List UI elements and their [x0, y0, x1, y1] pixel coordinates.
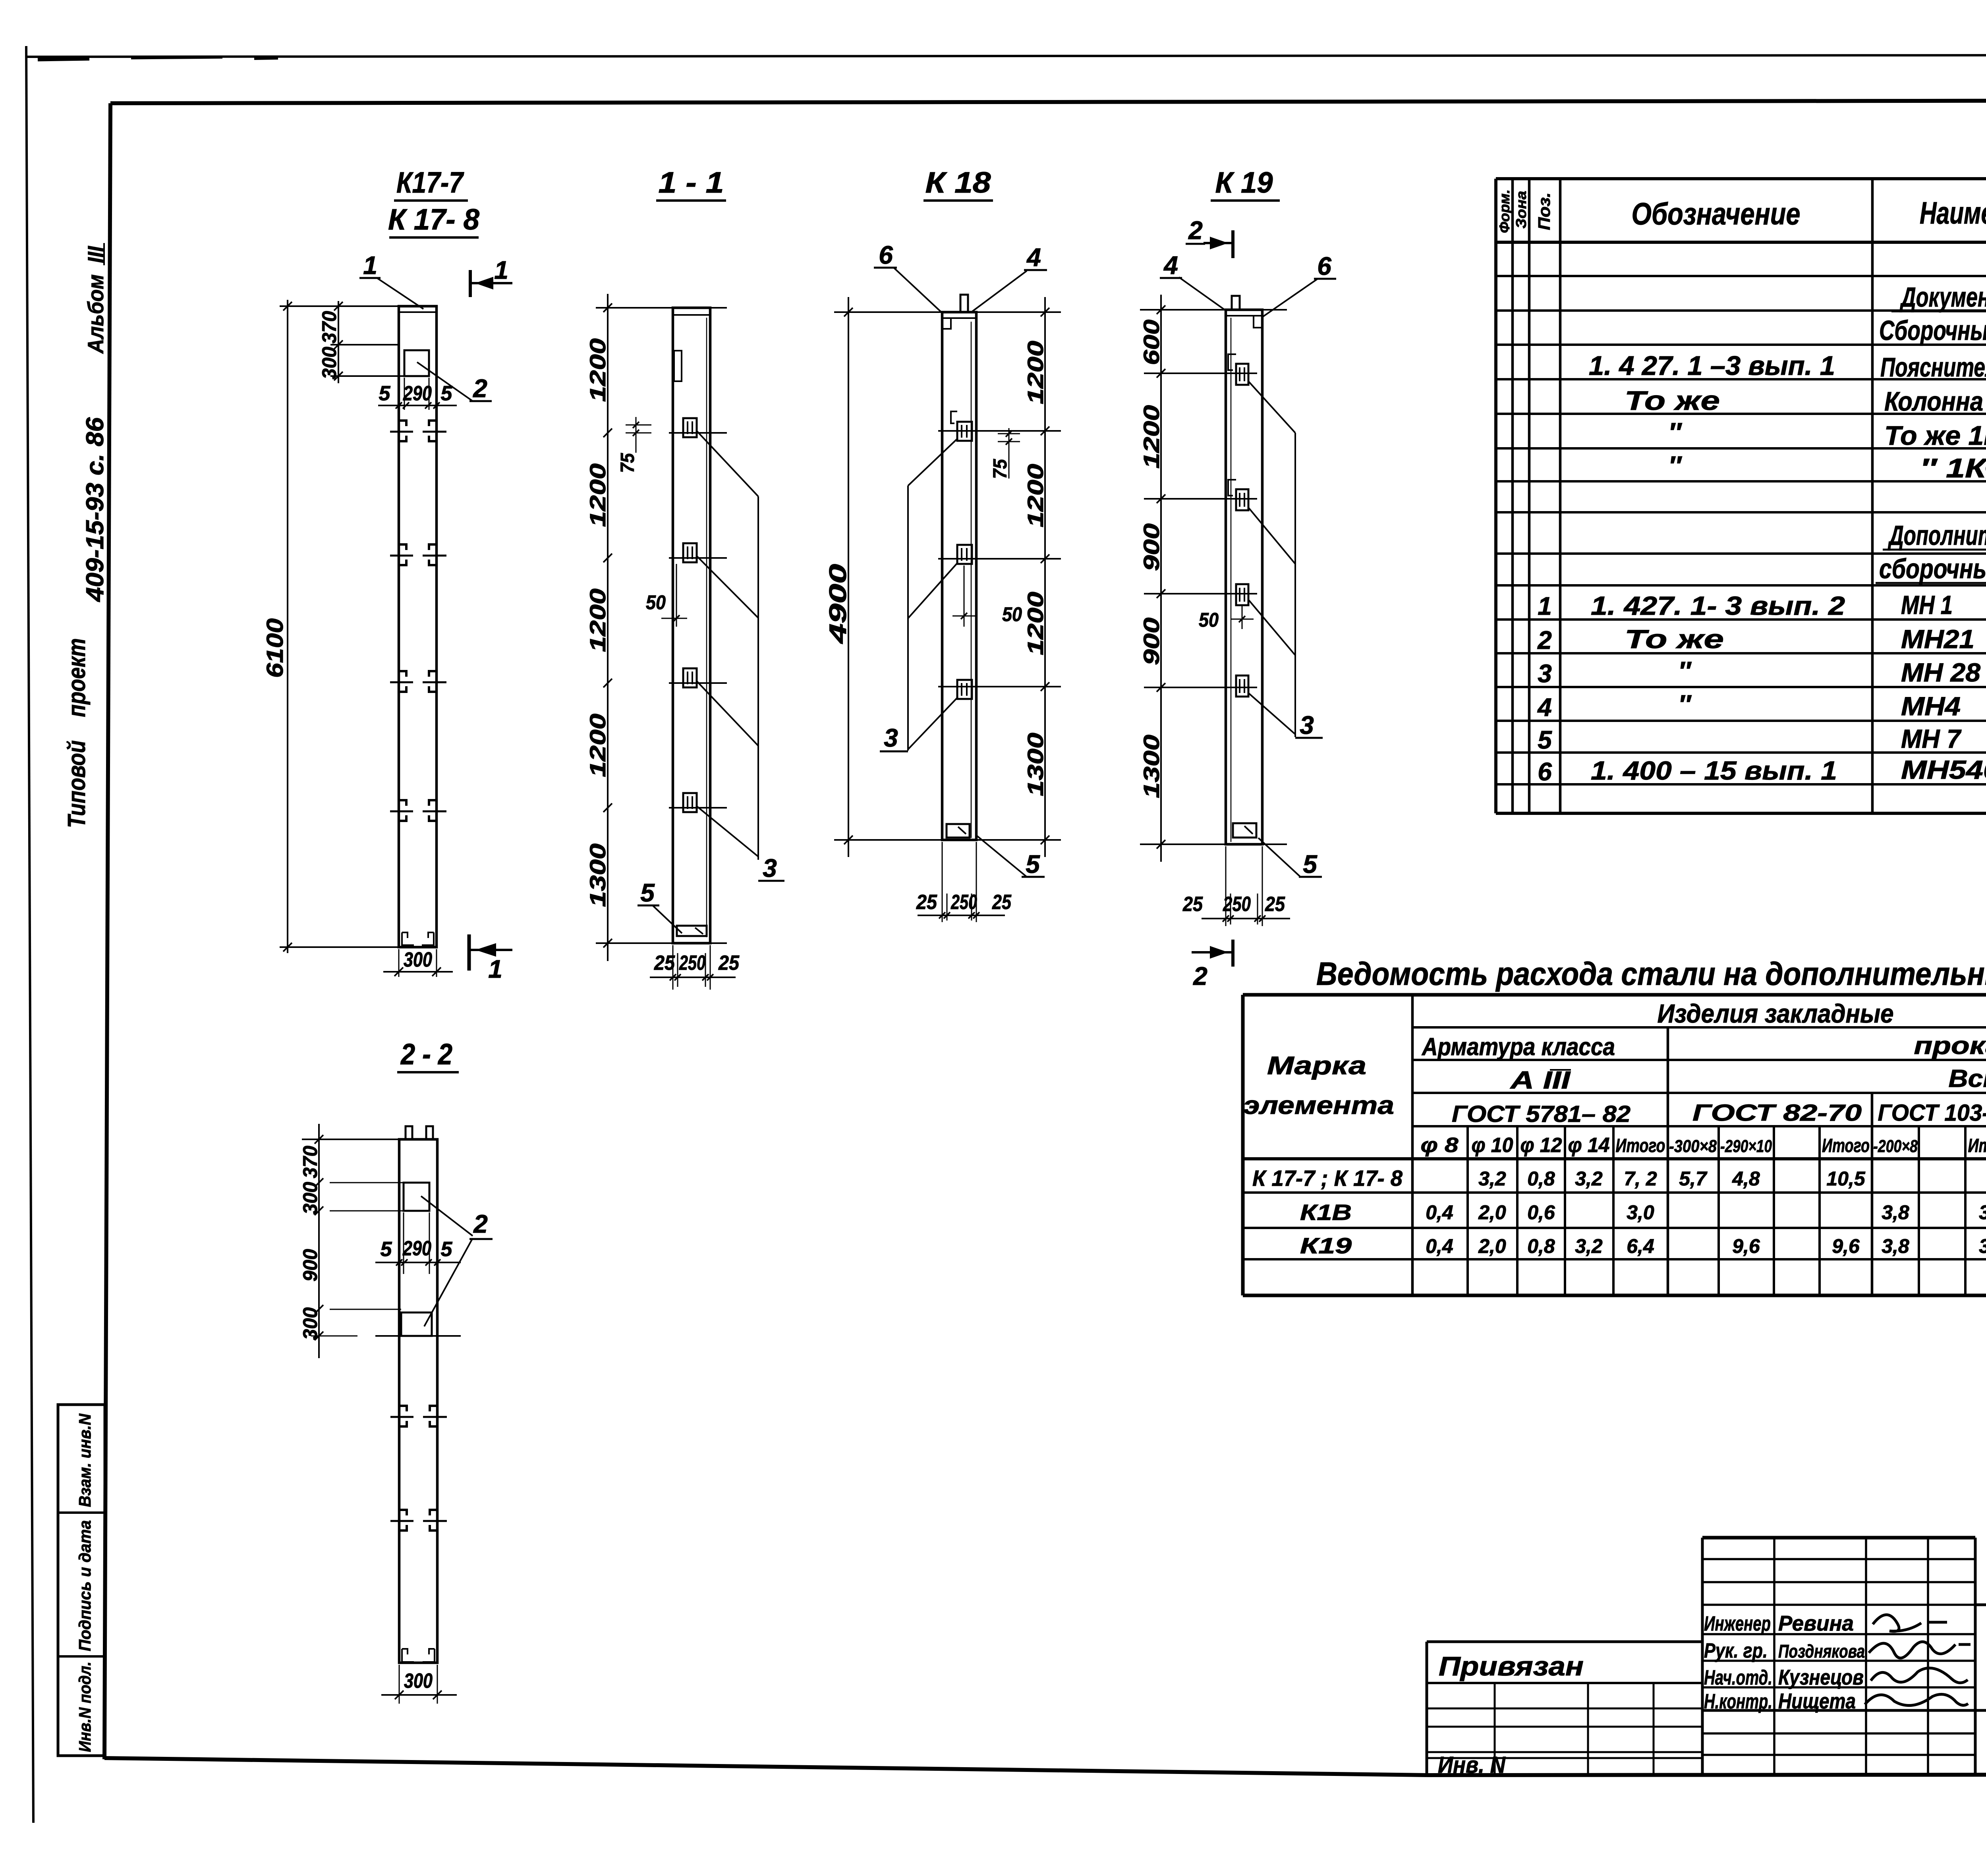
dimension 5 290 5	[378, 378, 457, 410]
svg-text:3,8: 3,8	[1882, 1201, 1909, 1224]
svg-text:1: 1	[1538, 592, 1552, 620]
svg-text:250: 250	[950, 891, 977, 914]
dimension 75 (K18)	[990, 428, 1020, 479]
svg-text:25: 25	[916, 891, 937, 914]
dimension 300 bottom (2-2)	[381, 1665, 457, 1704]
embedded plate MN28 level 1 (K18)	[957, 422, 972, 441]
sheet scan top edge	[26, 55, 1986, 60]
svg-text:5: 5	[1538, 726, 1552, 754]
svg-text:6: 6	[1538, 757, 1552, 786]
spec row Сборочный чертеж	[1876, 315, 1986, 346]
svg-text:Н.контр.: Н.контр.	[1704, 1690, 1772, 1713]
svg-text:2: 2	[473, 374, 487, 403]
svg-text:50: 50	[1002, 603, 1022, 625]
svg-text:Дополнительные: Дополнительные	[1887, 520, 1986, 551]
leader fan 3 (K18)	[880, 439, 957, 752]
svg-text:ГОСТ 5781– 82: ГОСТ 5781– 82	[1452, 1101, 1631, 1127]
svg-text:Сборочный чертеж: Сборочный чертеж	[1879, 315, 1986, 346]
svg-text:1. 400 – 15 вып. 1: 1. 400 – 15 вып. 1	[1591, 756, 1837, 785]
plate tab level2 (K19)	[1228, 480, 1236, 496]
dimension 50 (K18)	[952, 566, 1022, 627]
dimension 25 250 25 (K19)	[1182, 846, 1290, 926]
svg-text:3,8: 3,8	[1979, 1201, 1986, 1224]
svg-text:1: 1	[363, 251, 377, 280]
svg-text:ГОСТ 103-76: ГОСТ 103-76	[1878, 1100, 1986, 1126]
svg-text:300: 300	[318, 347, 340, 379]
svg-text:Итого: Итого	[1616, 1135, 1665, 1156]
svg-text:5: 5	[1026, 850, 1040, 878]
svg-text:1200: 1200	[585, 338, 610, 402]
svg-text:3,2: 3,2	[1478, 1168, 1506, 1190]
column K19 outline	[1226, 310, 1262, 844]
svg-text:1 - 1: 1 - 1	[659, 166, 724, 199]
svg-text:Пояснительная записка: Пояснительная записка	[1880, 352, 1986, 382]
spec row МН21	[1537, 624, 1986, 655]
svg-text:0,4: 0,4	[1426, 1201, 1453, 1224]
embedded plate MN28 level 3 (K18)	[957, 680, 972, 699]
embedded plate pair MN28 level 4 (K17-7 view)	[390, 800, 446, 821]
dimension 5 290 5 (2-2)	[375, 1212, 461, 1274]
svg-text:Кузнецов: Кузнецов	[1778, 1666, 1864, 1689]
svg-text:Зона: Зона	[1513, 191, 1529, 229]
svg-text:1. 427. 1- 3 вып. 2: 1. 427. 1- 3 вып. 2	[1591, 591, 1845, 620]
svg-text:5: 5	[381, 1238, 392, 1261]
embedded plate MN level 4 (K19)	[1236, 676, 1248, 697]
svg-text:Колонна 1КФ6 1-1: Колонна 1КФ6 1-1	[1884, 386, 1986, 417]
svg-text:1. 4 27. 1 –3 вып. 1: 1. 4 27. 1 –3 вып. 1	[1589, 351, 1835, 381]
svg-text:9,6: 9,6	[1832, 1235, 1860, 1257]
section mark 1-1 top	[470, 256, 512, 297]
leader 4 (K19)	[1160, 251, 1226, 311]
grid level lines (K18)	[834, 312, 1061, 840]
svg-text:1200: 1200	[585, 589, 610, 652]
svg-text:К 17- 8: К 17- 8	[388, 203, 480, 236]
svg-text:″ 1КФ4 9-2: ″ 1КФ4 9-2	[1920, 453, 1986, 483]
column 1-1 outline	[673, 308, 710, 943]
leader 6 (K18)	[874, 241, 942, 313]
bottom plate MN7 (K18)	[947, 824, 970, 838]
embedded plate MN level 2 (K19)	[1236, 489, 1248, 510]
svg-text:600: 600	[1139, 320, 1164, 365]
svg-text:290: 290	[402, 1237, 431, 1260]
svg-text:Изделия закладные: Изделия закладные	[1658, 999, 1894, 1028]
steel header А III	[1509, 1067, 1571, 1094]
svg-text:7, 2: 7, 2	[1624, 1168, 1657, 1190]
title K18	[923, 166, 993, 201]
svg-text:1300: 1300	[1139, 735, 1164, 798]
svg-text:1200: 1200	[1023, 592, 1048, 655]
dimension 75 (1-1)	[617, 417, 651, 473]
spec row 1КФ49-2	[1668, 451, 1986, 483]
svg-text:5: 5	[1303, 850, 1318, 878]
spec row МН28	[1538, 656, 1986, 689]
svg-text:К 18: К 18	[925, 166, 991, 199]
svg-text:Типовой проект: Типовой проект	[63, 638, 91, 828]
embedded plate pair level 2 (2-2)	[390, 1510, 447, 1531]
svg-text:Обозначение: Обозначение	[1632, 196, 1801, 231]
svg-text:3,2: 3,2	[1575, 1235, 1603, 1257]
embedded plate MN28 level 3 (1-1)	[683, 668, 697, 687]
stamp column boxes	[58, 1405, 105, 1756]
svg-text:Позднякова: Позднякова	[1778, 1641, 1865, 1662]
svg-text:370: 370	[318, 311, 340, 344]
svg-text:6: 6	[879, 241, 893, 269]
svg-text:75: 75	[990, 459, 1011, 479]
svg-text:4: 4	[1026, 243, 1041, 272]
svg-text:409-15-93 с. 86: 409-15-93 с. 86	[81, 417, 109, 602]
svg-text:К17-7: К17-7	[396, 166, 464, 199]
svg-text:-200×8: -200×8	[1873, 1137, 1918, 1156]
svg-text:300: 300	[299, 1307, 321, 1340]
svg-text:75: 75	[617, 453, 638, 473]
svg-text:0,8: 0,8	[1527, 1235, 1555, 1257]
svg-text:К1В: К1В	[1300, 1200, 1352, 1225]
embedded plate MN28 level 4 (1-1)	[683, 793, 697, 812]
svg-text:3,8: 3,8	[1882, 1235, 1909, 1257]
lower-left grid of title block	[1427, 1683, 1702, 1775]
svg-text:Инв. N: Инв. N	[1438, 1752, 1506, 1778]
dimension 300 bottom (K17-7)	[383, 948, 453, 977]
svg-text:Ревина: Ревина	[1778, 1612, 1854, 1635]
title block signature table grid	[1702, 1538, 1975, 1775]
steel header ГОСТ 5781-82	[1452, 1101, 1631, 1127]
svg-text:2 - 2: 2 - 2	[400, 1038, 452, 1071]
spec row Документация	[1891, 282, 1986, 313]
section mark 1-1 bottom	[469, 934, 512, 983]
dimension 25 250 25 (1-1)	[650, 945, 740, 990]
spec row МН1	[1538, 590, 1986, 620]
dimension 50 (1-1)	[646, 564, 687, 627]
leader 5 (K18)	[977, 836, 1045, 878]
svg-text:φ 12: φ 12	[1520, 1134, 1562, 1157]
svg-text:10,5: 10,5	[1826, 1168, 1866, 1190]
svg-text:2: 2	[1193, 962, 1207, 990]
svg-text:МН21: МН21	[1901, 624, 1974, 654]
dimension 4900 (K18)	[825, 297, 853, 857]
svg-text:300: 300	[404, 948, 432, 971]
svg-text:φ 14: φ 14	[1568, 1134, 1610, 1157]
svg-text:6: 6	[1317, 252, 1331, 280]
svg-text:Инженер: Инженер	[1704, 1612, 1771, 1635]
bottom plate MN7 (1-1)	[677, 926, 707, 936]
Инв.N label	[1438, 1752, 1506, 1778]
svg-text:МН 7: МН 7	[1901, 724, 1962, 753]
steel header ГОСТ 103-76	[1878, 1100, 1986, 1126]
svg-text:элемента: элемента	[1243, 1091, 1394, 1119]
svg-text:Вст 3 кп 2- 1: Вст 3 кп 2- 1	[1949, 1065, 1986, 1092]
spec row МН7	[1538, 724, 1986, 755]
svg-text:50: 50	[1199, 609, 1219, 631]
svg-text:1200: 1200	[1023, 464, 1048, 527]
svg-text:1200: 1200	[1023, 341, 1048, 404]
svg-text:Итого: Итого	[1968, 1135, 1986, 1156]
steel header ГОСТ 82-70	[1692, 1100, 1862, 1126]
steel header Вст3 кп2-1	[1949, 1065, 1986, 1092]
margin text Типовой проект	[63, 638, 91, 828]
svg-text:5: 5	[379, 382, 391, 405]
svg-text:2,0: 2,0	[1478, 1201, 1506, 1224]
svg-text:2,0: 2,0	[1478, 1235, 1506, 1257]
dimension 25 250 25 (K18)	[916, 842, 1012, 922]
svg-text:0,8: 0,8	[1527, 1168, 1555, 1190]
spec header Зона	[1513, 191, 1529, 229]
embedded plate MN28 level 2 (K18)	[957, 545, 972, 564]
window opening top (pos 2)	[404, 350, 429, 376]
svg-text:5: 5	[640, 878, 655, 907]
spec header Форм	[1496, 189, 1513, 233]
embedded plate MN level 1 (K19)	[1236, 364, 1248, 385]
svg-text:9,6: 9,6	[1732, 1235, 1760, 1257]
spec header Обозначение	[1632, 196, 1801, 231]
svg-text:φ 10: φ 10	[1472, 1134, 1513, 1157]
svg-text:А III: А III	[1509, 1067, 1571, 1094]
grid level lines (K19)	[1140, 310, 1287, 844]
svg-text:МН 1: МН 1	[1901, 590, 1953, 620]
leader fan 3 (1-1)	[697, 431, 784, 882]
sheet scan left edge	[26, 46, 33, 1823]
spec row МН4	[1537, 689, 1986, 722]
svg-text:25: 25	[1265, 893, 1285, 916]
bottom corner recess left (K17-7)	[402, 932, 414, 945]
svg-text:-300×8: -300×8	[1669, 1137, 1717, 1156]
svg-text:″: ″	[1668, 451, 1682, 481]
svg-text:1: 1	[488, 955, 502, 983]
title 1-1	[656, 166, 726, 201]
window opening upper (2-2)	[404, 1183, 429, 1211]
plate tab level1 (K18)	[951, 411, 957, 423]
svg-text:Итого: Итого	[1822, 1135, 1870, 1156]
spec row сборочные единицы	[1876, 553, 1986, 584]
svg-text:прокат марки: прокат марки	[1914, 1032, 1986, 1060]
leader 1 to top face	[359, 251, 423, 309]
svg-text:25: 25	[718, 952, 740, 975]
leader 4 (K18)	[972, 243, 1047, 311]
plate MN1 near top (1-1)	[674, 351, 682, 381]
steel table grid	[1243, 995, 1986, 1295]
title 2-2	[397, 1038, 459, 1072]
svg-text:1200: 1200	[585, 463, 610, 527]
dimension 370/300	[318, 301, 404, 383]
embedded plate pair MN28 level 2 (K17-7 view)	[390, 544, 446, 565]
svg-text:3: 3	[1538, 659, 1552, 688]
section mark 2 top	[1186, 216, 1233, 258]
svg-text:300: 300	[299, 1182, 321, 1214]
svg-text:То же: То же	[1625, 624, 1724, 654]
svg-text:50: 50	[646, 591, 666, 614]
svg-text:Рук. гр.: Рук. гр.	[1704, 1639, 1768, 1662]
margin text Альбом III	[83, 243, 108, 354]
svg-text:Арматура класса: Арматура класса	[1421, 1033, 1615, 1061]
svg-text:Взам. инв.N: Взам. инв.N	[75, 1413, 94, 1507]
margin text 409-15-93 c.86	[81, 417, 109, 602]
svg-text:6100: 6100	[262, 618, 288, 678]
svg-text:К 17-7 ; К 17- 8: К 17-7 ; К 17- 8	[1252, 1166, 1403, 1191]
svg-text:Нач.отд.: Нач.отд.	[1704, 1666, 1772, 1689]
svg-text:φ 8: φ 8	[1421, 1134, 1459, 1157]
steel header Изделия закладные	[1658, 999, 1894, 1028]
stamp label Взам. инв.N	[75, 1413, 94, 1507]
leader 2 to windows (2-2)	[421, 1196, 493, 1326]
svg-text:МН4: МН4	[1901, 691, 1961, 721]
embedded plate pair MN28 level 1 (K17-7 view)	[390, 421, 446, 441]
svg-text:Марка: Марка	[1267, 1051, 1366, 1080]
top corner chamfer detail (K19)	[1254, 317, 1262, 328]
svg-text:2: 2	[1537, 626, 1552, 654]
spec header Поз	[1535, 193, 1553, 230]
spec header Наименование	[1920, 195, 1986, 230]
svg-text:″: ″	[1678, 689, 1692, 719]
svg-text:5,7: 5,7	[1679, 1168, 1708, 1190]
svg-text:-290×10: -290×10	[1720, 1137, 1772, 1156]
column K18 outline	[942, 312, 976, 840]
anchor pin on top (K18)	[960, 295, 968, 312]
window opening lower (2-2)	[401, 1312, 432, 1336]
svg-text:2: 2	[1188, 216, 1203, 245]
svg-text:25: 25	[992, 891, 1012, 914]
svg-text:Привязан: Привязан	[1439, 1651, 1584, 1681]
spec row Пояснительная записка	[1589, 351, 1986, 382]
anchor pins top (2-2)	[406, 1126, 433, 1139]
anchor pin on top (K19)	[1232, 296, 1240, 310]
svg-text:То же: То же	[1625, 386, 1720, 416]
dimension chain 600+1200+900+900+1300 (K19)	[1139, 295, 1165, 862]
steel table title	[1316, 956, 1986, 992]
svg-text:4900: 4900	[825, 564, 851, 644]
svg-text:Инв.N подл.: Инв.N подл.	[75, 1662, 94, 1752]
svg-text:сборочные единицы: сборочные единицы	[1879, 553, 1986, 584]
svg-text:3,2: 3,2	[1575, 1168, 1603, 1190]
svg-text:4: 4	[1163, 251, 1178, 280]
steel header Марка элемента	[1243, 1051, 1394, 1119]
svg-text:″: ″	[1678, 656, 1692, 685]
svg-text:3: 3	[1300, 711, 1314, 739]
svg-text:4,8: 4,8	[1732, 1168, 1760, 1190]
svg-text:То же 1КФ6 1-2: То же 1КФ6 1-2	[1884, 421, 1986, 451]
signature squiggles	[1865, 1615, 1971, 1705]
svg-text:3: 3	[884, 724, 898, 752]
embedded plate pair MN28 level 3 (K17-7 view)	[390, 671, 446, 692]
svg-text:1200: 1200	[585, 714, 610, 777]
stamp label Инв.N подл.	[75, 1662, 94, 1752]
svg-text:0,4: 0,4	[1426, 1235, 1453, 1257]
svg-text:5: 5	[441, 1238, 453, 1261]
steel header Арматура класса	[1421, 1033, 1615, 1061]
svg-text:900: 900	[1139, 523, 1164, 571]
embedded plate MN28 level 2 (1-1)	[683, 543, 697, 562]
svg-text:3,8: 3,8	[1979, 1235, 1986, 1257]
column 2-2 outline	[399, 1139, 437, 1663]
svg-text:25: 25	[654, 952, 675, 975]
svg-text:900: 900	[1139, 618, 1164, 665]
bottom corner recess right (K17-7)	[422, 932, 434, 945]
dimension 50 (K19)	[1199, 605, 1254, 631]
title block main cells	[1975, 1605, 1986, 1775]
svg-text:250: 250	[679, 952, 705, 975]
svg-text:К19: К19	[1300, 1233, 1352, 1258]
leader 2 to window	[417, 362, 492, 403]
svg-text:Подпись и дата: Подпись и дата	[75, 1520, 94, 1651]
svg-text:0,6: 0,6	[1527, 1201, 1555, 1224]
steel row K18	[1300, 1200, 1986, 1225]
svg-text:6,4: 6,4	[1627, 1235, 1654, 1257]
svg-text:4: 4	[1537, 693, 1552, 722]
svg-text:25: 25	[1182, 893, 1203, 916]
svg-text:ГОСТ 82-70: ГОСТ 82-70	[1692, 1100, 1862, 1126]
svg-text:250: 250	[1223, 893, 1251, 916]
stamp label Подпись и дата	[75, 1520, 94, 1651]
embedded plate pair level 1 (2-2)	[390, 1406, 447, 1426]
bottom corner recess right (2-2)	[423, 1649, 435, 1662]
svg-text:290: 290	[403, 382, 432, 405]
top corner chamfer detail (K18)	[942, 318, 951, 329]
steel row K19	[1300, 1233, 1986, 1258]
dimension 6100 line	[262, 300, 399, 953]
section mark 2 bottom	[1192, 940, 1233, 990]
leader 5 (K19)	[1258, 838, 1322, 878]
Привязан box	[1427, 1642, 1702, 1775]
steel subheader diameters	[1421, 1130, 1986, 1161]
leader 6 (K19)	[1263, 252, 1336, 317]
plate tab level1 (K19)	[1228, 354, 1236, 370]
spec row Дополнительные	[1883, 520, 1986, 551]
dimension chain 370/300/900/300 (2-2)	[299, 1124, 461, 1358]
column K17-7 outline	[399, 306, 437, 947]
spec row МН540	[1538, 755, 1986, 786]
svg-text:Нищета: Нищета	[1778, 1689, 1856, 1713]
leader 5 (1-1)	[638, 878, 682, 933]
svg-text:Документация: Документация	[1899, 282, 1986, 313]
svg-text:300: 300	[404, 1669, 433, 1693]
svg-text:900: 900	[299, 1249, 321, 1282]
steel row K17-7;K17-8	[1252, 1166, 1986, 1191]
spec row Колонна 1КФ61-1	[1625, 386, 1986, 417]
leader fan 3 (K19)	[1248, 381, 1323, 739]
signature roles and names	[1704, 1612, 1865, 1713]
svg-text:Поз.: Поз.	[1535, 193, 1553, 230]
bottom corner recess left (2-2)	[402, 1649, 414, 1662]
svg-text:К 19: К 19	[1215, 166, 1273, 199]
svg-text:2: 2	[473, 1210, 488, 1238]
specification table grid	[1496, 179, 1986, 813]
svg-text:Ведомость расхода стали: Ведомость расхода стали на дополнительны…	[1316, 956, 1986, 992]
svg-text:370: 370	[299, 1146, 321, 1178]
svg-text:Наименование: Наименование	[1920, 195, 1986, 230]
embedded plate MN level 3 (K19)	[1236, 584, 1248, 605]
dimension chain 1200x3+1300 (K18)	[1023, 297, 1049, 857]
title K17-7	[394, 166, 468, 201]
steel header прокат марки	[1914, 1032, 1986, 1060]
grid level lines (1-1)	[596, 308, 727, 943]
svg-text:3,0: 3,0	[1627, 1201, 1654, 1224]
svg-text:3: 3	[763, 854, 777, 882]
svg-text:1200: 1200	[1139, 405, 1164, 469]
svg-text:Форм.: Форм.	[1496, 189, 1513, 233]
svg-text:МН540: МН540	[1901, 755, 1986, 784]
svg-text:″: ″	[1668, 417, 1682, 448]
svg-text:1300: 1300	[585, 843, 610, 907]
bottom plate MN7 (K19)	[1233, 823, 1256, 838]
spec row То же 1КФ61-2	[1668, 417, 1986, 451]
svg-text:МН 28: МН 28	[1901, 658, 1980, 687]
svg-text:1300: 1300	[1023, 733, 1048, 796]
title K17-8	[388, 203, 480, 237]
svg-text:1: 1	[494, 256, 508, 284]
dimension chain 1200x4+1300 (1-1)	[585, 294, 612, 961]
title K19	[1211, 166, 1280, 201]
embedded plate MN28 level 1 (1-1)	[683, 418, 697, 437]
